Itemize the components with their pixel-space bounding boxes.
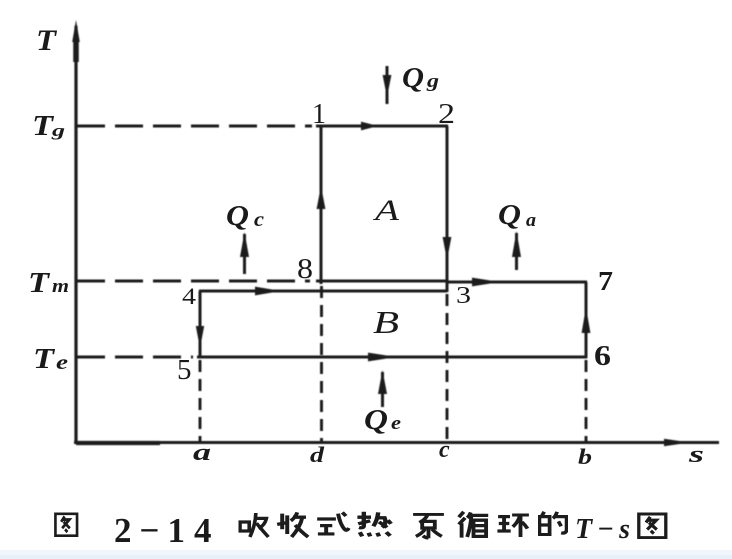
svg-text:2: 2 <box>438 99 455 130</box>
svg-text:Q: Q <box>498 200 521 231</box>
svg-text:Q: Q <box>364 405 388 436</box>
flow arrow down on 4-5 <box>196 326 204 348</box>
svg-text:T: T <box>33 343 56 375</box>
caption hanzi xi (absorb) <box>240 513 268 537</box>
svg-text:8: 8 <box>297 254 313 285</box>
svg-text:g: g <box>426 71 439 92</box>
svg-text:b: b <box>578 444 592 469</box>
svg-text:a: a <box>526 210 537 231</box>
caption hanzi re (heat) <box>357 512 391 537</box>
process line 4-5 (vertical) <box>199 291 202 358</box>
svg-text:6: 6 <box>594 340 611 372</box>
svg-text:T: T <box>28 267 51 299</box>
heat arrow Qe (up) <box>378 370 387 407</box>
caption hanzi shi (style) <box>317 512 349 534</box>
svg-text:7: 7 <box>598 266 613 296</box>
caption hanzi de (of) <box>539 512 566 535</box>
flow arrow up on 1-8 <box>317 186 326 209</box>
svg-text:a: a <box>193 440 211 466</box>
svg-text:e: e <box>391 413 402 434</box>
heat arrow Qg (down) <box>383 66 392 104</box>
svg-text:3: 3 <box>456 283 471 309</box>
dashed drop line d (x=321) <box>320 286 323 441</box>
svg-text:Q: Q <box>226 201 249 232</box>
process line 2-3 (vertical) <box>446 126 449 292</box>
caption hanzi xun (cycle) <box>459 512 488 538</box>
flow arrow on 3-7 <box>472 278 500 287</box>
svg-text:c: c <box>439 437 450 463</box>
bottom blue strip <box>0 550 732 559</box>
svg-text:2−14: 2−14 <box>114 511 218 550</box>
process line 1-8 (vertical) <box>320 126 323 284</box>
caption hanzi huan (ring) <box>497 515 529 537</box>
svg-text:Q: Q <box>402 63 424 94</box>
dashed drop line b (x=586) <box>585 360 588 441</box>
heat arrow Qc (up) <box>240 232 249 274</box>
svg-text:g: g <box>50 121 65 140</box>
svg-text:1: 1 <box>312 99 326 130</box>
process line 8-3 <box>316 280 447 283</box>
Te level dashed line <box>77 356 193 359</box>
heat arrow Qa (up) <box>512 231 521 270</box>
svg-text:5: 5 <box>177 354 192 386</box>
flow arrow up on 7-6 <box>582 307 591 333</box>
process line 5-6 <box>197 356 587 359</box>
svg-text:A: A <box>372 194 399 227</box>
Tg level dashed line <box>77 125 312 128</box>
process line 4-3 <box>199 290 447 293</box>
svg-text:c: c <box>254 209 264 231</box>
flow arrow on 4-3 <box>255 287 281 296</box>
T axis (vertical) <box>72 20 80 444</box>
svg-text:4: 4 <box>182 284 197 309</box>
svg-text:e: e <box>56 350 68 374</box>
caption figure word tu (left) <box>55 514 77 536</box>
s axis (horizontal) <box>74 439 719 447</box>
caption figure word tu (right) <box>639 514 666 538</box>
flow arrow down on 2-3 <box>443 237 452 260</box>
process line 7-6 (vertical) <box>585 282 588 358</box>
caption hanzi shou (gather) <box>277 512 308 537</box>
flow arrow on 1-2 <box>361 122 378 131</box>
dashed drop line a (x=200) <box>199 360 202 441</box>
flow arrow on 5-6 <box>368 353 396 362</box>
svg-text:T: T <box>36 24 58 57</box>
process line 1-2 <box>316 125 448 128</box>
process line 3-7 <box>447 281 587 284</box>
caption hanzi beng (pump) <box>413 514 444 538</box>
Tm level dashed line <box>77 280 310 283</box>
svg-text:B: B <box>373 304 399 340</box>
svg-text:d: d <box>310 442 325 467</box>
dashed drop line c (x=447) <box>446 294 449 441</box>
svg-text:T−s: T−s <box>575 514 633 545</box>
svg-text:s: s <box>687 442 704 468</box>
svg-text:m: m <box>52 276 69 297</box>
